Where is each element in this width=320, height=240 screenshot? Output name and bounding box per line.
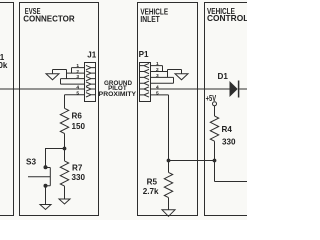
svg-text:2: 2 (156, 67, 159, 73)
svg-text:330: 330 (222, 138, 236, 147)
svg-text:1.0k: 1.0k (0, 61, 8, 70)
svg-text:4: 4 (156, 85, 159, 91)
svg-text:150: 150 (72, 122, 86, 131)
svg-text:R5: R5 (147, 178, 158, 187)
svg-text:PROXIMITY: PROXIMITY (99, 91, 137, 98)
svg-text:INLET: INLET (140, 15, 159, 24)
svg-text:R6: R6 (72, 112, 83, 121)
svg-text:5: 5 (156, 91, 159, 97)
svg-text:D1: D1 (218, 72, 229, 81)
svg-text:2: 2 (76, 69, 79, 75)
svg-text:CONTROLLER: CONTROLLER (207, 14, 247, 23)
svg-text:1: 1 (156, 61, 159, 67)
svg-text:R4: R4 (222, 125, 233, 134)
svg-text:CONNECTOR: CONNECTOR (23, 14, 75, 23)
svg-text:3: 3 (76, 74, 79, 80)
svg-text:S3: S3 (26, 158, 36, 167)
svg-text:3: 3 (156, 73, 159, 79)
svg-text:+5V: +5V (206, 94, 217, 103)
svg-text:2.7k: 2.7k (143, 187, 159, 196)
svg-text:5: 5 (76, 90, 79, 96)
svg-text:R7: R7 (72, 163, 83, 172)
svg-text:J1: J1 (87, 50, 97, 59)
svg-text:1: 1 (76, 63, 79, 69)
svg-text:4: 4 (76, 85, 79, 91)
svg-text:P1: P1 (139, 50, 149, 59)
svg-text:330: 330 (72, 173, 86, 182)
